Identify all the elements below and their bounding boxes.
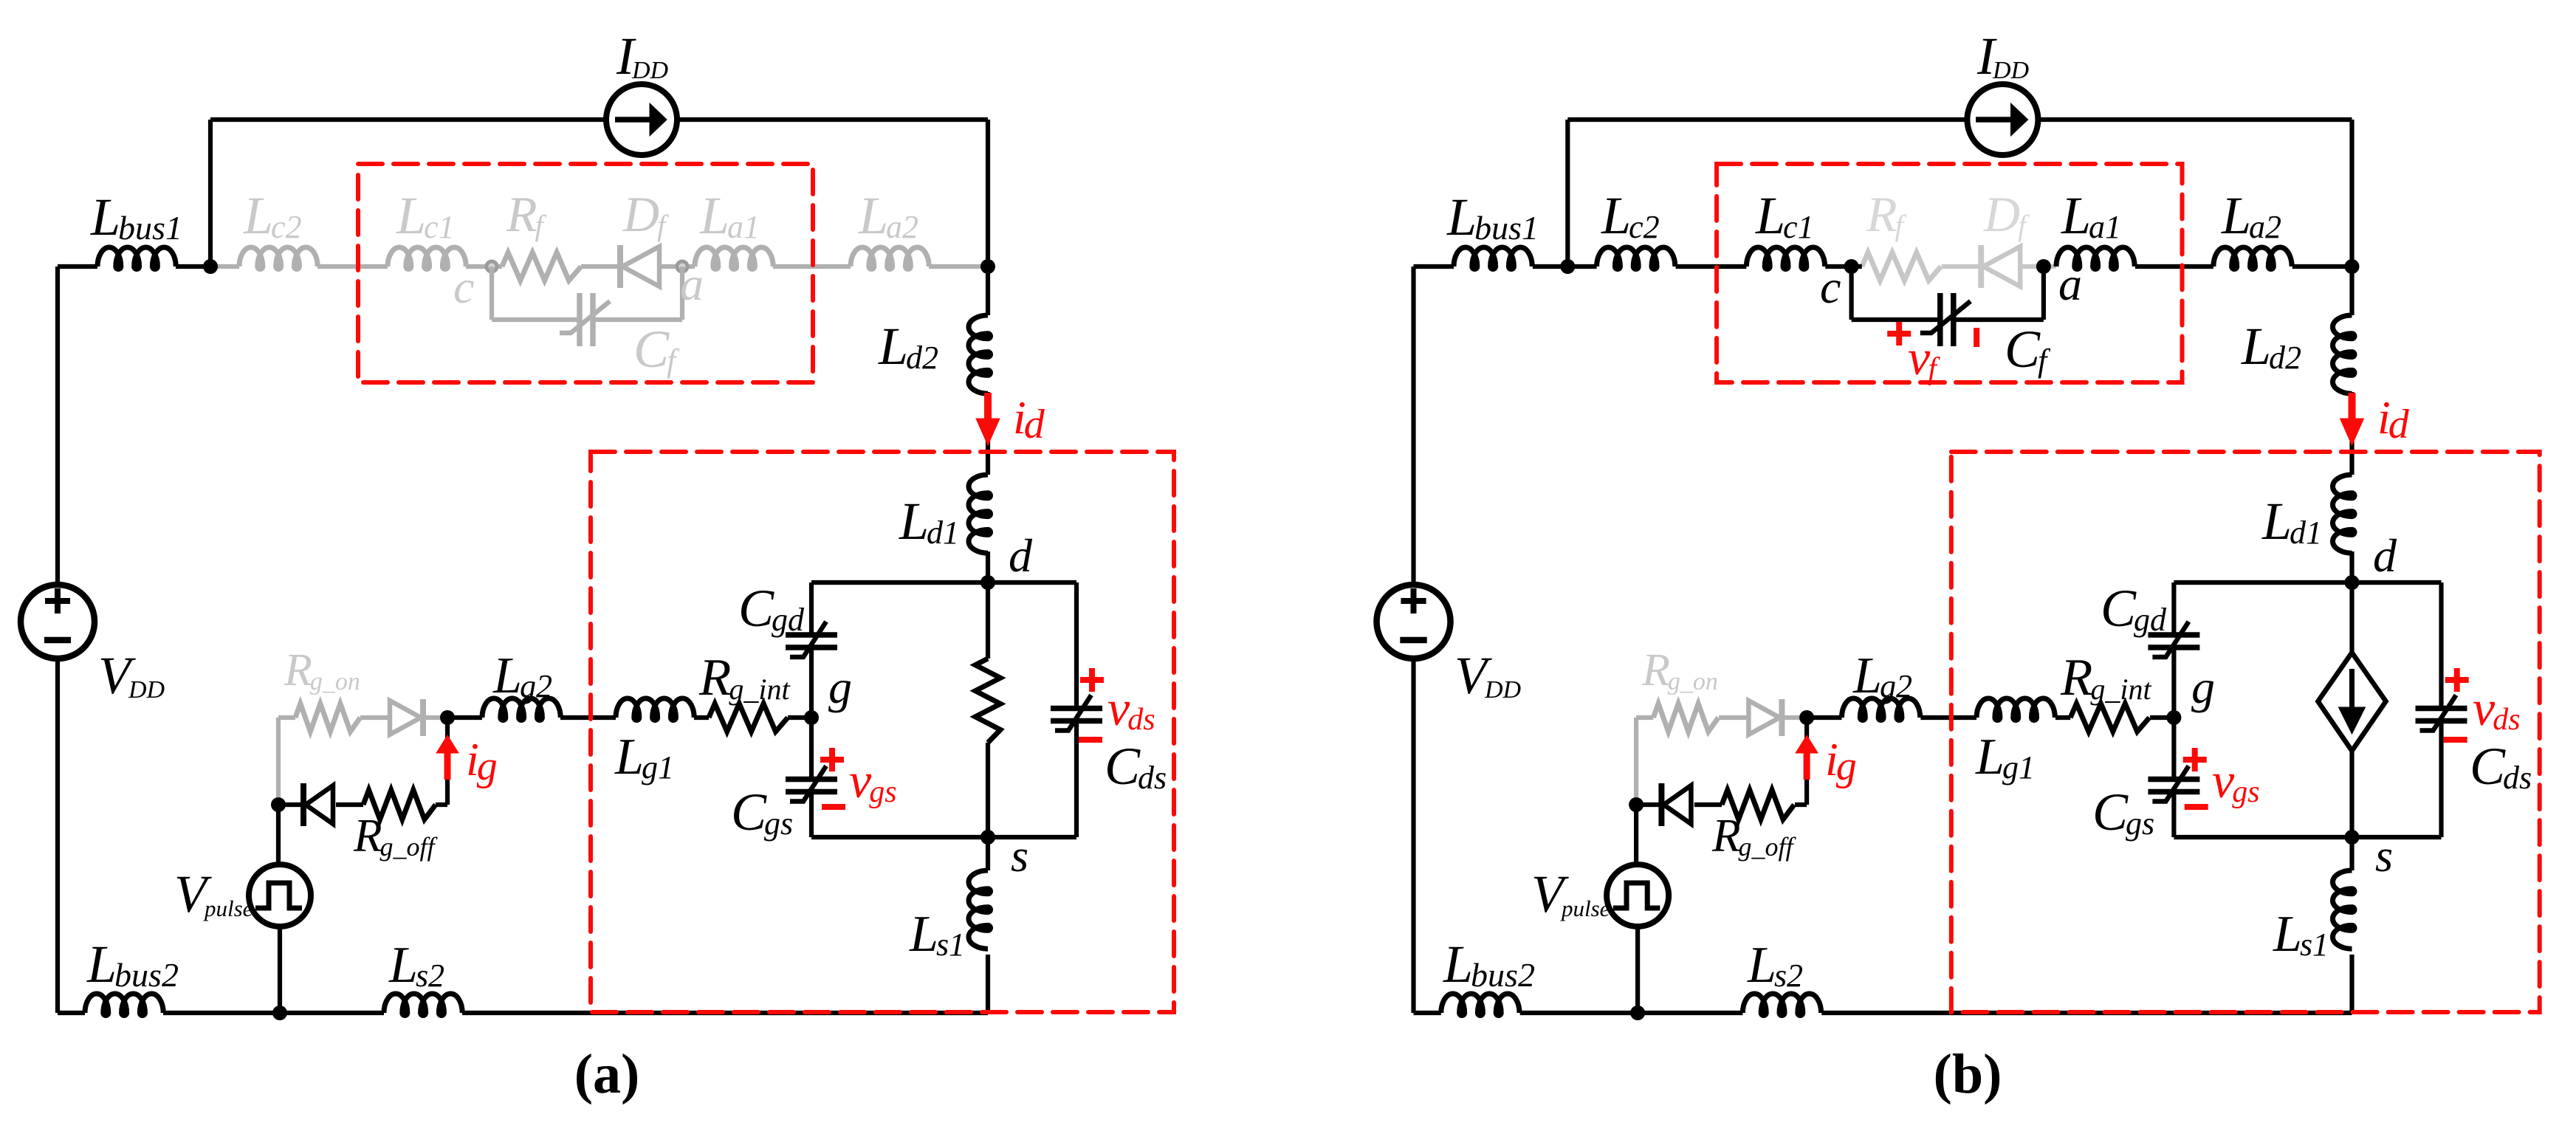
svg-text:s: s [1011,831,1028,881]
svg-text:(b): (b) [1934,1043,2002,1105]
svg-text:c: c [453,261,474,313]
svg-text:c: c [1820,261,1841,313]
svg-text:d: d [2373,529,2397,582]
svg-text:g: g [828,661,852,713]
svg-text:s: s [2375,831,2393,881]
svg-text:(a): (a) [574,1043,640,1105]
svg-text:a: a [680,258,704,310]
svg-text:a: a [2058,258,2082,310]
svg-text:d: d [1009,529,1033,582]
svg-text:g: g [2191,661,2215,713]
